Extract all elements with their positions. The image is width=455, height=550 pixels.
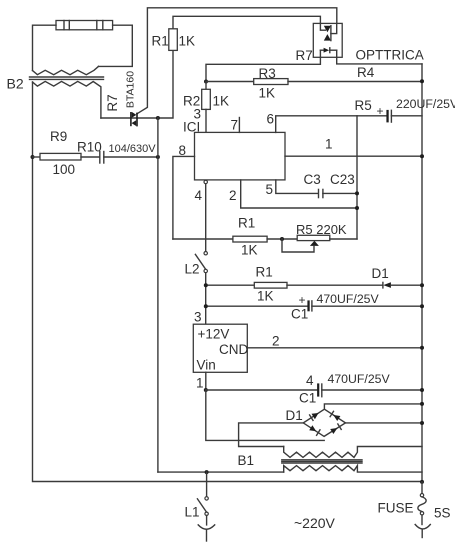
svg-text:ICI: ICI: [183, 120, 200, 135]
node pin1 rail: [420, 154, 424, 158]
node bridge top rail: [420, 402, 424, 406]
node L1 junction: [205, 470, 209, 474]
switch L1: [197, 472, 214, 541]
svg-text:R5 220K: R5 220K: [296, 222, 347, 237]
svg-text:1K: 1K: [241, 243, 258, 258]
svg-text:5S: 5S: [434, 506, 451, 521]
wire right rail: [421, 64, 423, 482]
transformer B1 primary coil: [284, 466, 422, 473]
svg-text:R3: R3: [259, 66, 276, 81]
fuse FUSE 5S: [415, 482, 430, 538]
wire top outer rail with triac gate: [137, 8, 337, 114]
node R9 row left: [31, 155, 35, 159]
capacitor C1 470UF/25V (row 306): [206, 300, 422, 311]
svg-text:4: 4: [306, 373, 314, 388]
wire pin 4 down: [205, 184, 207, 252]
svg-text:D1: D1: [286, 408, 303, 423]
svg-text:+12V: +12V: [198, 327, 230, 342]
transformer B2 core: [30, 77, 104, 79]
svg-text:1K: 1K: [259, 86, 276, 101]
resistor R9: [33, 153, 100, 160]
svg-text:3: 3: [194, 310, 202, 325]
wire bridge right to rail: [346, 422, 423, 424]
opto phototriac: [320, 23, 336, 40]
svg-text:C23: C23: [330, 172, 355, 187]
resistor R1 1K (pot row): [173, 236, 297, 242]
wire opto pin3 to R2 top: [206, 50, 320, 81]
svg-text:R10: R10: [77, 140, 102, 155]
svg-text:C1: C1: [291, 307, 308, 322]
svg-text:B1: B1: [238, 453, 255, 468]
resistor R1 1K (row 285): [206, 282, 383, 288]
svg-text:B2: B2: [7, 76, 24, 92]
triac R7 BTA160: [130, 112, 138, 127]
svg-text:L1: L1: [185, 505, 200, 520]
svg-text:R7: R7: [105, 94, 120, 111]
svg-text:1: 1: [325, 137, 333, 152]
svg-text:2: 2: [272, 334, 280, 349]
wire pin 5 line with C3 C23: [276, 180, 357, 198]
diode bridge arrows: [309, 411, 341, 435]
svg-text:7: 7: [231, 118, 239, 133]
node C3 junction: [355, 191, 359, 195]
node pin2 junction: [355, 206, 359, 210]
wire pin 2 line: [241, 180, 357, 208]
wire long vertical from triac to B1: [157, 118, 159, 472]
node row285 rail: [420, 283, 424, 287]
node row306 left: [204, 304, 208, 308]
capacitor R5 220UF/25V: [386, 110, 422, 123]
svg-text:4: 4: [195, 188, 203, 203]
svg-text:1: 1: [196, 376, 204, 391]
svg-text:1K: 1K: [179, 34, 196, 49]
switch L2: [195, 252, 207, 273]
wire pin 8 line: [173, 156, 195, 239]
node R2 top: [204, 80, 208, 84]
svg-text:6: 6: [267, 112, 275, 127]
svg-text:OPTTRICA: OPTTRICA: [356, 48, 424, 63]
svg-text:C3: C3: [304, 172, 321, 187]
node bridge right rail: [420, 421, 424, 425]
resistor R2 1K: [202, 82, 211, 133]
diode D1 (row 285): [383, 282, 422, 288]
wire B2 left lead down: [32, 82, 34, 157]
capacitor R10 104/630V: [100, 152, 158, 164]
svg-text:L2: L2: [185, 262, 200, 277]
transformer B1 core: [282, 460, 362, 463]
regulator +12V box: [193, 324, 247, 372]
wire bridge top to rail: [324, 404, 422, 409]
node pin2 rail: [420, 346, 424, 350]
wire L2 to regulator pin3: [205, 273, 207, 325]
pin 4 terminal circle: [204, 180, 207, 183]
diode bridge D1 diamond: [303, 409, 345, 436]
op-amp IC1 box: [195, 132, 286, 180]
svg-text:R1: R1: [256, 265, 273, 280]
svg-text:220UF/25V: 220UF/25V: [396, 97, 455, 111]
svg-text:R5: R5: [355, 98, 372, 113]
svg-text:R1: R1: [238, 216, 255, 231]
svg-text:R4: R4: [357, 65, 375, 80]
node row306 rail: [420, 304, 424, 308]
opto LED: [320, 48, 336, 53]
node pin1 reg: [204, 388, 208, 392]
wire B1 primary left lead: [158, 471, 284, 473]
wire pin 1 line: [285, 155, 422, 157]
wire pin1 to bridge bottom: [206, 390, 324, 440]
transformer B1 secondary coil: [284, 447, 422, 458]
transformer B2 primary coil: [33, 66, 99, 74]
svg-text:FUSE: FUSE: [378, 501, 414, 516]
svg-text:1K: 1K: [257, 289, 274, 304]
svg-text:104/630V: 104/630V: [109, 143, 157, 155]
node row390 rail: [420, 388, 424, 392]
svg-text:+: +: [299, 293, 306, 307]
svg-text:R7: R7: [296, 48, 313, 63]
svg-text:470UF/25V: 470UF/25V: [328, 372, 391, 386]
svg-text:CND: CND: [219, 342, 248, 357]
svg-text:R1: R1: [152, 34, 169, 49]
svg-text:R9: R9: [50, 129, 67, 144]
svg-text:C1: C1: [299, 391, 316, 406]
svg-text:~220V: ~220V: [294, 515, 336, 531]
wire R1 top lead to optocoupler pin1: [173, 16, 320, 29]
svg-text:D1: D1: [372, 266, 389, 281]
wire left rail and bottom rail: [33, 157, 423, 482]
svg-text:BTA160: BTA160: [125, 71, 137, 108]
svg-text:2: 2: [229, 188, 237, 203]
capacitor C1 470UF/25V (row 390): [206, 383, 422, 396]
wire pin 7 stub: [238, 118, 240, 133]
wire block right lead: [99, 25, 133, 66]
svg-text:1K: 1K: [213, 94, 230, 109]
svg-text:100: 100: [53, 162, 76, 177]
resistor R3 1K: [206, 79, 422, 85]
resistor block top-left: [56, 21, 113, 30]
svg-text:8: 8: [179, 143, 187, 158]
node 104 cap junction: [156, 155, 160, 159]
svg-text:Vin: Vin: [197, 358, 216, 373]
svg-text:470UF/25V: 470UF/25V: [317, 292, 380, 306]
node fuse junction: [420, 480, 424, 484]
transformer B2 secondary coil: [33, 81, 101, 118]
wire pin 6 line: [276, 116, 387, 133]
wire block left lead: [33, 25, 57, 70]
wire vertical x357: [356, 116, 358, 239]
wire regulator pin2: [247, 347, 422, 349]
optocoupler R7 box: [313, 23, 342, 57]
wire regulator pin1: [205, 372, 207, 390]
node row285 left: [204, 283, 208, 287]
wire bridge left to B1: [239, 423, 304, 447]
node pot row: [280, 237, 284, 241]
node R4 rail: [420, 79, 424, 83]
wire triac line to R1 bottom lead: [101, 50, 173, 118]
node triac junction: [156, 116, 160, 120]
svg-text:5: 5: [266, 182, 274, 197]
svg-text:+: +: [377, 104, 384, 118]
resistor R1 top body: [169, 29, 178, 51]
wire opto pin4 to right rail: [337, 50, 422, 64]
potentiometer R5 220K: [282, 235, 357, 252]
